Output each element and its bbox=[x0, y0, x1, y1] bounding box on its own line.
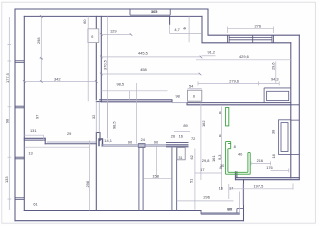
svg-text:9,3: 9,3 bbox=[217, 155, 222, 160]
window left 1 bbox=[15, 61, 24, 108]
window top bbox=[130, 9, 170, 15]
svg-text:429,6: 429,6 bbox=[239, 54, 249, 59]
svg-text:129: 129 bbox=[110, 29, 117, 34]
dim left outer vertical bbox=[8, 17, 12, 210]
svg-text:17: 17 bbox=[229, 186, 233, 191]
wall bedroom bottom left segment bbox=[24, 138, 45, 140]
door opening central wall light bbox=[96, 102, 99, 133]
tick marks bbox=[23, 15, 202, 83]
dim living vertical long bbox=[107, 16, 109, 138]
dim living 985 bbox=[101, 90, 167, 92]
dim lower room line bbox=[24, 146, 89, 148]
svg-text:97: 97 bbox=[35, 115, 40, 119]
dim living 129 bbox=[101, 34, 131, 36]
dim bedroom horizontal 342 bbox=[24, 81, 96, 83]
wall central vertical cap at opening bbox=[96, 101, 101, 103]
svg-text:216: 216 bbox=[257, 158, 264, 163]
svg-text:72: 72 bbox=[191, 136, 195, 141]
svg-text:370,5: 370,5 bbox=[103, 60, 108, 70]
cabinet box B nested bbox=[279, 120, 291, 155]
svg-text:158: 158 bbox=[152, 173, 159, 178]
dim kitchen vertical right bbox=[221, 107, 223, 191]
rotated labels bbox=[4, 19, 276, 188]
svg-text:365: 365 bbox=[151, 10, 157, 14]
dim top small 60 bbox=[87, 16, 89, 101]
svg-text:445,5: 445,5 bbox=[138, 50, 148, 55]
wall bottom inner bbox=[24, 210, 201, 212]
svg-text:29,8: 29,8 bbox=[202, 158, 210, 163]
wall bottom outer bbox=[15, 220, 244, 222]
svg-text:13: 13 bbox=[28, 151, 32, 156]
svg-text:98: 98 bbox=[176, 94, 180, 99]
dimension lines gray bbox=[8, 16, 294, 213]
dim bedroom vertical 298 bbox=[40, 16, 44, 81]
dim corridor vertical bbox=[107, 102, 109, 139]
dim hall vertical bbox=[155, 146, 157, 178]
dim kitchen vertical long bbox=[200, 103, 202, 180]
wall junction box corridor bbox=[138, 144, 145, 148]
svg-text:91,2: 91,2 bbox=[208, 50, 216, 55]
wall top-right step outer bbox=[208, 9, 299, 35]
wall stair-side vertical bbox=[243, 180, 245, 221]
svg-text:38: 38 bbox=[271, 130, 276, 134]
dim entry 1975 bbox=[229, 184, 293, 200]
wall left outer bbox=[14, 9, 16, 221]
svg-text:342: 342 bbox=[54, 76, 61, 81]
svg-text:29,6: 29,6 bbox=[271, 62, 276, 70]
svg-text:8: 8 bbox=[219, 110, 221, 115]
green counter U-shape bbox=[226, 142, 251, 175]
wall top-right step inner bbox=[202, 16, 291, 42]
svg-text:16: 16 bbox=[179, 134, 183, 139]
shaft box bath bbox=[177, 148, 185, 161]
wall central vertical lower pair bbox=[96, 133, 100, 211]
wall bedroom bottom upper light line bbox=[47, 141, 97, 143]
wall bedroom bottom right segment bbox=[45, 143, 96, 145]
svg-text:276: 276 bbox=[255, 24, 262, 29]
dim shaft 54 bbox=[188, 88, 202, 90]
svg-text:14,1: 14,1 bbox=[104, 138, 112, 143]
svg-text:177,5: 177,5 bbox=[5, 73, 10, 83]
wall central vertical upper pair bbox=[96, 16, 101, 101]
wall junction blob corridor bbox=[99, 139, 103, 146]
svg-text:162: 162 bbox=[201, 121, 206, 128]
dim bath 296 bbox=[177, 200, 234, 202]
svg-text:17: 17 bbox=[200, 167, 204, 172]
wall horizontal mid left part bbox=[100, 100, 172, 102]
svg-text:29: 29 bbox=[67, 131, 71, 136]
svg-text:98,5: 98,5 bbox=[117, 81, 125, 86]
svg-text:298: 298 bbox=[85, 181, 90, 188]
dim living 445 bbox=[101, 56, 201, 58]
dim kitchen 26 bbox=[174, 130, 190, 132]
wall top inner bbox=[24, 15, 202, 17]
svg-text:8: 8 bbox=[193, 95, 195, 99]
wall corridor left vertical pair bbox=[139, 148, 143, 211]
door gap line kitchen bbox=[172, 102, 187, 104]
wall top outer bbox=[15, 8, 208, 10]
svg-text:94,3: 94,3 bbox=[271, 76, 279, 81]
svg-text:133: 133 bbox=[4, 177, 9, 184]
cabinet box A living bbox=[264, 88, 291, 103]
svg-text:8: 8 bbox=[220, 165, 222, 170]
wall bedroom bottom jog bbox=[44, 138, 46, 144]
svg-text:458: 458 bbox=[140, 67, 147, 72]
svg-text:26: 26 bbox=[171, 134, 175, 139]
dim entry verticals bbox=[240, 184, 244, 214]
entrance step recess bbox=[201, 209, 244, 215]
svg-text:62: 62 bbox=[189, 155, 194, 159]
svg-text:8: 8 bbox=[219, 133, 221, 138]
dim lower room vertical bbox=[89, 140, 91, 210]
svg-text:31: 31 bbox=[179, 156, 183, 160]
svg-text:89: 89 bbox=[183, 123, 187, 128]
wall kitchen bottom-left stub bbox=[235, 172, 237, 180]
dim right 2796 943 bbox=[198, 81, 279, 85]
svg-text:32: 32 bbox=[91, 115, 96, 119]
svg-text:8: 8 bbox=[234, 144, 236, 149]
svg-text:298: 298 bbox=[36, 38, 41, 45]
svg-text:вх: вх bbox=[227, 206, 233, 211]
wall right outer bbox=[298, 35, 300, 179]
wall corridor top thin bbox=[101, 145, 188, 146]
svg-text:197,5: 197,5 bbox=[254, 183, 264, 188]
wall horizontal mid right part bbox=[187, 103, 291, 105]
svg-text:131: 131 bbox=[30, 128, 37, 133]
window top-right bbox=[228, 35, 274, 43]
dim top right 276 bbox=[228, 27, 274, 34]
svg-text:161: 161 bbox=[211, 156, 216, 163]
svg-text:б: б bbox=[91, 35, 93, 39]
dim bath horizontal faint bbox=[195, 172, 222, 174]
right wall window crossbars bbox=[291, 105, 300, 155]
svg-text:98,5: 98,5 bbox=[111, 121, 116, 129]
wall kitchen bottom bbox=[236, 178, 299, 180]
dim right 412 bbox=[202, 55, 216, 57]
svg-text:4,7: 4,7 bbox=[174, 27, 179, 32]
svg-text:98: 98 bbox=[5, 119, 10, 123]
svg-text:176: 176 bbox=[266, 165, 273, 170]
shaft box living bbox=[188, 90, 202, 101]
dim living 458 bbox=[101, 73, 200, 75]
dim living vertical mid bbox=[136, 83, 138, 144]
dim right 4296 bbox=[196, 59, 291, 61]
svg-text:51: 51 bbox=[189, 179, 194, 183]
dim right vertical 296 bbox=[275, 61, 277, 83]
wall bath left vertical pair bbox=[172, 148, 177, 211]
window left 2 bbox=[15, 157, 24, 199]
svg-text:296: 296 bbox=[203, 194, 210, 199]
tiny labels bbox=[28, 10, 278, 212]
dim corner 47-9 bbox=[170, 16, 201, 42]
svg-text:16: 16 bbox=[219, 186, 223, 191]
shaft box bedroom bbox=[88, 29, 99, 43]
wall stub living room top bbox=[169, 16, 171, 24]
dim kitchen 176 bbox=[271, 168, 289, 172]
wall right inner bbox=[290, 43, 292, 178]
dim kitchen 216 bbox=[251, 161, 271, 165]
dim hall 158 bbox=[143, 177, 171, 179]
wall bath north thick segment bbox=[166, 143, 189, 147]
dim bath vertical bbox=[194, 149, 196, 210]
svg-text:61: 61 bbox=[33, 201, 37, 206]
dim ext wall bbox=[128, 91, 130, 100]
green radiator kitchen top bbox=[226, 108, 229, 126]
wall left inner bbox=[23, 16, 25, 210]
svg-text:279,6: 279,6 bbox=[229, 79, 239, 84]
dim bedroom door 131 bbox=[24, 135, 43, 141]
svg-text:18: 18 bbox=[271, 154, 276, 158]
